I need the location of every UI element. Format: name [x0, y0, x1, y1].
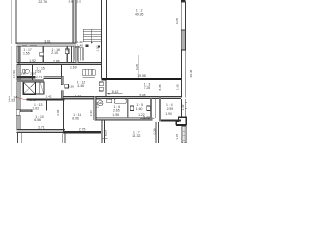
- svg-text:2.86: 2.86: [53, 59, 60, 63]
- svg-text:6.06: 6.06: [72, 116, 79, 120]
- svg-text:0.36: 0.36: [152, 128, 156, 134]
- svg-text:3.61: 3.61: [44, 40, 51, 44]
- svg-text:22.76: 22.76: [39, 0, 48, 4]
- svg-text:1.92: 1.92: [29, 59, 36, 63]
- svg-text:1.90: 1.90: [165, 112, 172, 116]
- svg-text:2.15: 2.15: [51, 51, 58, 55]
- svg-text:0.36: 0.36: [68, 85, 74, 89]
- svg-text:1.96: 1.96: [112, 113, 119, 117]
- svg-text:2.75: 2.75: [79, 127, 86, 131]
- svg-text:4.46: 4.46: [77, 84, 84, 88]
- svg-text:1.50: 1.50: [66, 48, 70, 54]
- svg-text:2.42: 2.42: [95, 102, 99, 108]
- svg-text:1.45: 1.45: [77, 44, 83, 48]
- svg-text:2.71: 2.71: [36, 75, 42, 79]
- svg-text:2.71: 2.71: [38, 125, 45, 129]
- svg-text:17.59: 17.59: [12, 70, 16, 78]
- svg-text:1.30: 1.30: [175, 84, 179, 90]
- svg-text:1.60: 1.60: [136, 107, 143, 111]
- svg-text:6.05: 6.05: [175, 18, 179, 24]
- svg-text:2.0: 2.0: [77, 0, 82, 3]
- svg-text:2.42: 2.42: [89, 110, 93, 116]
- svg-text:1.33: 1.33: [8, 99, 15, 103]
- svg-text:6.48: 6.48: [30, 98, 36, 102]
- svg-text:8.42: 8.42: [112, 90, 119, 94]
- svg-text:1.97: 1.97: [175, 133, 179, 139]
- svg-text:6.05: 6.05: [135, 64, 139, 70]
- svg-text:5.08: 5.08: [139, 93, 145, 97]
- svg-text:5.42: 5.42: [143, 116, 150, 120]
- svg-text:2.16: 2.16: [30, 72, 36, 76]
- svg-text:1.69: 1.69: [70, 66, 77, 70]
- svg-text:1.62: 1.62: [32, 106, 39, 110]
- svg-text:8.07: 8.07: [104, 130, 108, 136]
- svg-text:1.32: 1.32: [181, 104, 185, 110]
- svg-text:11.32: 11.32: [132, 134, 140, 138]
- svg-text:1.50: 1.50: [96, 45, 100, 51]
- svg-text:2.99: 2.99: [167, 107, 174, 111]
- svg-text:6.56: 6.56: [34, 118, 41, 122]
- svg-text:7.25: 7.25: [144, 86, 151, 90]
- svg-text:1.42: 1.42: [45, 94, 51, 98]
- svg-text:19.58: 19.58: [137, 74, 146, 78]
- svg-text:1.47: 1.47: [75, 94, 81, 98]
- svg-text:1.07: 1.07: [20, 72, 26, 76]
- svg-text:2.65: 2.65: [113, 109, 120, 113]
- svg-text:39.45: 39.45: [189, 69, 193, 77]
- svg-text:3.8: 3.8: [68, 0, 73, 3]
- svg-text:1.55: 1.55: [23, 52, 30, 56]
- svg-text:49.35: 49.35: [135, 13, 144, 17]
- svg-text:8.38: 8.38: [158, 84, 162, 90]
- svg-text:4.48: 4.48: [56, 110, 60, 116]
